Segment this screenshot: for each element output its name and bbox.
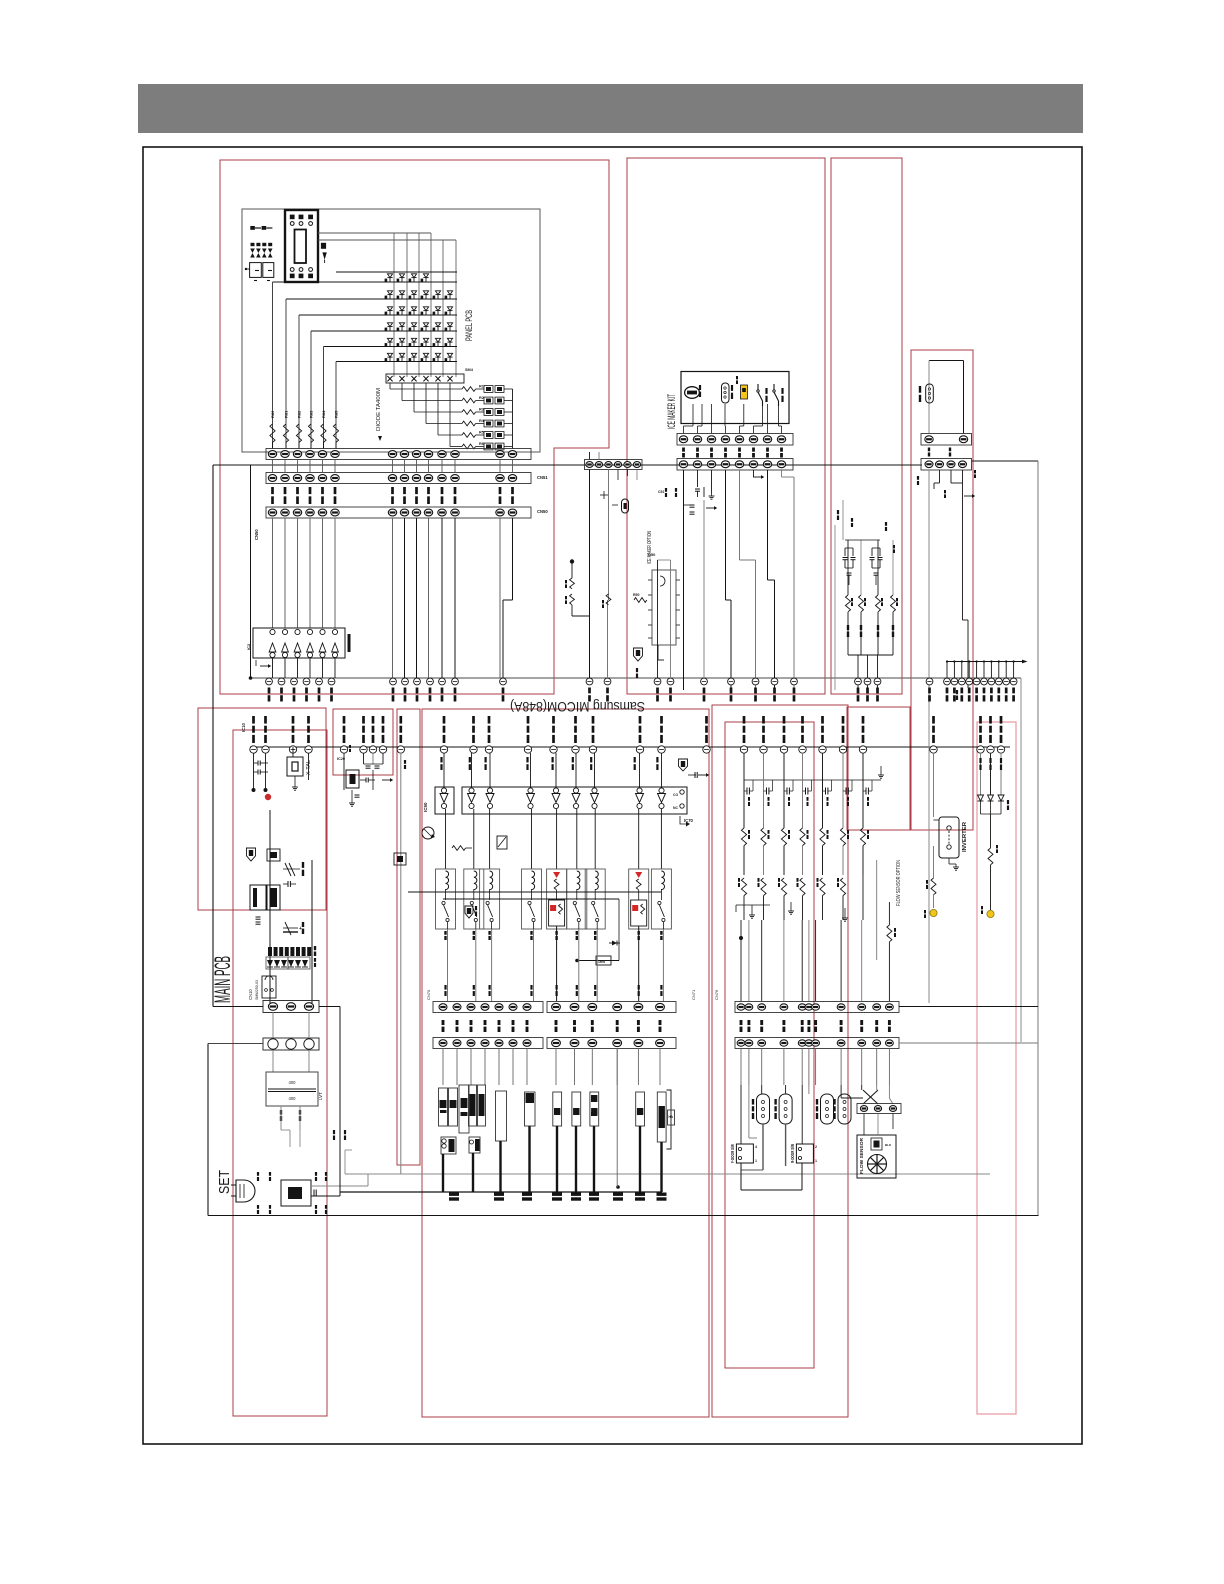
zener row (283, 868, 300, 870)
sensor block caps (844, 548, 846, 556)
relay outputs to strip (447, 929, 449, 1001)
region outline xtal G1 (333, 709, 393, 775)
R52 on gray wire (606, 594, 611, 605)
sensor top feeds (845, 539, 880, 541)
svg-text:INVERTER: INVERTER (962, 822, 968, 852)
load 2 (459, 1085, 469, 1133)
outer border frame (143, 147, 1082, 1444)
svg-text:R64: R64 (321, 410, 326, 418)
svg-text:MAIN PCB: MAIN PCB (210, 956, 235, 1003)
thermal fuse resistor (931, 878, 936, 895)
connector CN90 kit top (677, 434, 793, 446)
svg-text:X-TAL: X-TAL (306, 760, 312, 775)
svg-text:R63: R63 (309, 410, 314, 418)
fan motors (757, 1094, 770, 1124)
connector CN85 top (921, 434, 972, 446)
load 5 (525, 1092, 536, 1126)
svg-text:R3: R3 (479, 408, 484, 412)
door wires (740, 1085, 742, 1144)
svg-text:C50: C50 (648, 552, 656, 557)
R-door switch (796, 1144, 813, 1163)
relay buses (408, 891, 661, 893)
region outline water valve D (911, 350, 973, 830)
region outline motor J (pink) (977, 722, 1016, 1414)
region outline right I1 (712, 705, 848, 1417)
load 6..9 (553, 1092, 562, 1126)
svg-text:CN50: CN50 (254, 529, 259, 540)
svg-text:SMW250-03: SMW250-03 (255, 980, 259, 1000)
relay box (262, 976, 276, 998)
svg-text:SM4: SM4 (465, 368, 474, 372)
fuse RY1 (622, 499, 629, 513)
svg-text:CN51: CN51 (537, 475, 548, 480)
transformer LVT (272, 1050, 274, 1072)
crystal X-TAL (287, 757, 303, 776)
connector CN91 kit bottom (677, 459, 793, 471)
connector CN76 row B (735, 1038, 899, 1049)
bridge diode row (268, 947, 272, 956)
sensor lower resistors (738, 878, 740, 882)
svg-text:F-DOOR S/W: F-DOOR S/W (730, 1144, 735, 1163)
svg-text:CO: CO (673, 793, 678, 797)
svg-text:R50: R50 (633, 593, 639, 597)
connector CN31 (263, 1038, 319, 1050)
svg-text:R5: R5 (479, 431, 484, 435)
junction merge lines (736, 904, 770, 906)
svg-text:IC70: IC70 (684, 818, 694, 823)
svg-text:BLK: BLK (885, 1143, 892, 1147)
connector CN40 (585, 460, 643, 470)
diode triangle row (267, 960, 273, 967)
jumper row (250, 226, 255, 230)
micom pin bus row2 (250, 746, 1010, 748)
water valve outline (929, 360, 964, 362)
kit harness wires down (683, 470, 685, 690)
svg-text:HA: HA (669, 1115, 674, 1119)
svg-text:R61: R61 (284, 410, 289, 418)
plus marks (600, 494, 608, 496)
connector CN70 row B right (547, 1038, 676, 1049)
micom top bus (251, 677, 1022, 679)
title bar (138, 84, 1083, 133)
svg-text:+: + (299, 926, 302, 932)
diode strip TA400M (386, 374, 464, 383)
connector CN86 bottom (921, 459, 972, 471)
opto feed parts (452, 846, 466, 851)
comb header (947, 661, 1022, 663)
svg-text:2: 2 (815, 1145, 817, 1149)
driver IC array box (462, 787, 687, 814)
J region: motor pins (980, 753, 982, 795)
svg-text:400: 400 (289, 1080, 297, 1085)
svg-text:IC2: IC2 (246, 643, 251, 650)
wire left riser x250 (250, 465, 252, 678)
PANEL PCB board box (242, 209, 540, 452)
region outline left tall F (233, 730, 327, 1416)
right horizontal links (899, 1006, 1038, 1008)
INVERTER option switch (939, 817, 959, 858)
connector CN70 row A right (547, 1002, 676, 1013)
svg-text:C51: C51 (658, 490, 664, 494)
power supply chain (269, 810, 271, 1003)
red test point (265, 794, 271, 800)
region outline lamp K (847, 707, 910, 830)
micom row1 pins (266, 678, 273, 685)
CN40 wires (589, 452, 591, 460)
connector CN50 row2 (266, 473, 531, 484)
IC array right pins (680, 790, 684, 794)
geared motor (685, 387, 700, 399)
LED matrix vertical bus wires (393, 271, 395, 377)
fan impeller (868, 1155, 887, 1174)
bent wire with resistor (876, 860, 878, 960)
svg-text:ICE MAKER KIT: ICE MAKER KIT (666, 394, 678, 429)
resistor array R1-R6 (389, 383, 391, 389)
svg-text:CN71: CN71 (691, 989, 696, 1000)
switch diode cluster (251, 243, 255, 246)
connector CN30 (263, 1001, 319, 1013)
region outline right I2 (725, 722, 814, 1368)
svg-text:R-DOOR S/W: R-DOOR S/W (790, 1144, 795, 1163)
svg-text:1Rw: 1Rw (598, 960, 605, 964)
connector CN70 row A left (433, 1002, 543, 1013)
kit wires to connector (692, 404, 694, 426)
svg-text:R2: R2 (479, 396, 484, 400)
strip link wires (272, 460, 274, 473)
relay bank (445, 809, 447, 869)
svg-text:R1: R1 (479, 385, 484, 389)
load wires row B down (442, 1049, 444, 1086)
svg-text:4: 4 (755, 1145, 757, 1149)
sensor resistors (847, 540, 849, 595)
connector CN51 row3 (266, 507, 531, 518)
svg-text:SET: SET (216, 1170, 233, 1194)
region outline pwm G2 (397, 709, 420, 1165)
driver IC50 single (435, 787, 454, 814)
svg-text:1: 1 (815, 1159, 817, 1163)
sensor series resistors (741, 828, 746, 846)
svg-text:R6: R6 (479, 442, 484, 446)
svg-text:LVT: LVT (318, 1092, 323, 1100)
region outline central H (422, 709, 709, 1417)
svg-text:CN70: CN70 (426, 989, 431, 1000)
photo coupler (422, 827, 434, 839)
LVT secondary wires (280, 1106, 282, 1130)
sensor divider chain (570, 559, 574, 563)
load 10 + bracket (657, 1092, 666, 1142)
driver IC2 (253, 628, 345, 658)
valve wires (928, 470, 930, 1003)
connector CN79 (857, 1104, 901, 1114)
valve coil component (926, 384, 934, 403)
electrolytic caps (283, 927, 298, 929)
thick load bottoms (442, 1154, 444, 1192)
svg-text:CN76: CN76 (714, 989, 719, 1000)
svg-text:R65: R65 (334, 410, 339, 418)
svg-text:1: 1 (755, 1159, 757, 1163)
MAIN PCB outline segments (212, 465, 214, 1007)
cap (287, 881, 289, 887)
connector CN70 row B left (433, 1038, 543, 1049)
svg-text:DIODE TA400M: DIODE TA400M (376, 388, 382, 431)
wire right riser x1021 (1020, 678, 1022, 1042)
heater load cluster 1 (439, 1088, 448, 1126)
region outline PANEL PCB (220, 160, 609, 694)
connector CN50 row1 (266, 449, 531, 460)
wire main bus y465 (213, 464, 922, 466)
svg-text:IC10: IC10 (241, 722, 246, 732)
svg-text:FLOW SENSOR OPTION: FLOW SENSOR OPTION (896, 860, 902, 906)
LED matrix feed lines (336, 271, 457, 273)
ICE MAKER KIT box (681, 372, 789, 424)
cross wires to flow connector (840, 1085, 842, 1098)
limit switches (757, 384, 759, 390)
SET filter box (281, 1180, 311, 1206)
svg-text:ICE MAKER OPTION: ICE MAKER OPTION (647, 531, 653, 564)
svg-text:NC: NC (673, 806, 678, 810)
connector boxes SW (250, 263, 262, 278)
regulators KIA7805 (250, 885, 266, 910)
svg-text:FLOW SENSOR: FLOW SENSOR (859, 1137, 864, 1174)
region outline ICE MAKER KIT (627, 158, 825, 694)
svg-text:R62: R62 (297, 410, 302, 418)
svg-text:IC50: IC50 (423, 802, 428, 812)
svg-text:CN50: CN50 (537, 509, 548, 514)
junction dots (249, 676, 253, 680)
wires strips down to micom bus (392, 518, 394, 678)
display module U-LCD (285, 210, 318, 282)
pwm long wire (400, 753, 402, 1174)
bottom color labels (449, 1193, 459, 1196)
load 4 (496, 1091, 507, 1141)
region outline IC10 block E (198, 708, 326, 910)
LED symbols grid (387, 274, 392, 278)
F-door switch (736, 1144, 753, 1163)
svg-text:PANEL PCB: PANEL PCB (464, 310, 474, 341)
display inner window (295, 230, 307, 264)
svg-text:Samsung MICOM(848A): Samsung MICOM(848A) (510, 699, 645, 715)
ice sensor (yellow) (741, 385, 748, 399)
sensor columns caps (744, 779, 877, 781)
micom row2 pins (250, 746, 257, 753)
svg-text:400: 400 (289, 1096, 297, 1101)
region outline sensor block C (831, 158, 902, 694)
load 3 pair (469, 1085, 477, 1126)
right load wires (740, 1049, 742, 1086)
matrix top extension wires (393, 233, 395, 271)
ground stubs (751, 905, 753, 912)
connector CN76 row A (735, 1002, 899, 1013)
svg-text:CN10: CN10 (248, 989, 253, 1000)
flow sensor unit (857, 1135, 896, 1178)
svg-text:R60: R60 (270, 410, 275, 418)
SET wires to right (311, 1185, 368, 1187)
thermistor (722, 383, 730, 403)
aux diode + resistor (577, 960, 619, 962)
+12V tag (247, 848, 256, 861)
buzzer BZ1 (321, 243, 326, 249)
